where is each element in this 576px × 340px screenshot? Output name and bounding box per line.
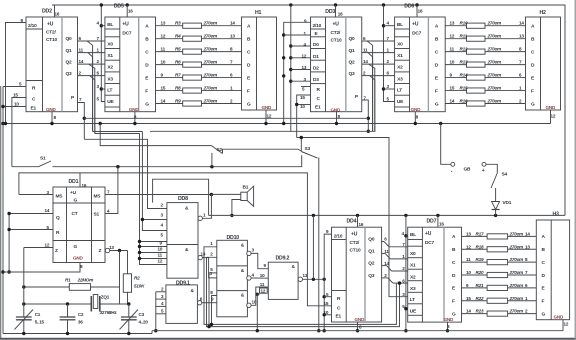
svg-text:R2: R2: [134, 276, 140, 281]
svg-text:UE: UE: [397, 99, 404, 105]
svg-text:D1: D1: [313, 54, 319, 60]
svg-text:DD9.1: DD9.1: [176, 280, 190, 286]
svg-text:Q3: Q3: [349, 71, 356, 77]
svg-text:16: 16: [338, 11, 343, 16]
clock chip DD1: [45, 179, 115, 269]
svg-text:270om: 270om: [509, 270, 524, 275]
wire DD10 outC to DD9.2: [251, 287, 268, 305]
svg-text:5: 5: [302, 87, 305, 92]
svg-text:Q1: Q1: [66, 48, 73, 54]
svg-text:12: 12: [158, 259, 163, 264]
svg-text:2: 2: [402, 266, 405, 271]
svg-text:GND: GND: [46, 107, 56, 112]
svg-text:Z: Z: [55, 248, 58, 254]
wire DD8 out2 to DD10: [202, 258, 216, 278]
svg-text:13: 13: [450, 21, 455, 26]
svg-text:10: 10: [450, 60, 455, 65]
svg-text:4: 4: [252, 272, 255, 277]
svg-text:E1: E1: [315, 105, 321, 111]
wire DD2 pin16: [54, 5, 56, 17]
svg-text:UE: UE: [107, 99, 114, 105]
svg-text:DD1: DD1: [69, 179, 79, 185]
svg-text:7: 7: [402, 242, 405, 247]
resistor R23: [462, 313, 488, 315]
svg-text:X0: X0: [397, 41, 403, 47]
svg-text:C: C: [32, 97, 36, 103]
svg-text:6: 6: [363, 36, 366, 41]
DD8 gate1 output bubble: [198, 216, 202, 220]
svg-text:16: 16: [359, 222, 364, 227]
svg-text:8: 8: [210, 290, 213, 295]
svg-text:270om: 270om: [203, 86, 218, 91]
svg-text:GND: GND: [546, 105, 556, 110]
svg-text:GND: GND: [129, 107, 139, 112]
svg-text:270om: 270om: [509, 283, 524, 288]
svg-text:22MOm: 22MOm: [77, 278, 94, 283]
svg-text:9: 9: [450, 73, 453, 78]
svg-text:2: 2: [525, 309, 528, 314]
svg-text:7: 7: [519, 60, 522, 65]
svg-text:2: 2: [79, 71, 82, 76]
wire B1 to rail: [232, 200, 241, 216]
svg-text:C3: C3: [139, 312, 145, 317]
svg-text:DD10: DD10: [227, 235, 240, 241]
svg-text:C: C: [452, 260, 456, 266]
svg-text:15: 15: [300, 95, 305, 100]
svg-text:D: D: [452, 273, 456, 279]
resistor R7: [156, 77, 183, 79]
svg-text:A: A: [247, 24, 251, 30]
svg-text:11: 11: [466, 257, 471, 262]
svg-text:16: 16: [82, 183, 87, 188]
svg-text:R22: R22: [476, 296, 484, 301]
svg-text:B: B: [531, 36, 535, 42]
svg-text:C: C: [531, 49, 535, 55]
svg-text:&: &: [292, 264, 296, 270]
svg-text:R5: R5: [175, 47, 181, 52]
svg-text:C: C: [317, 96, 321, 102]
LED VD1: [495, 188, 497, 202]
svg-text:2: 2: [384, 273, 387, 278]
svg-text:R9: R9: [175, 99, 181, 104]
resistor R5: [156, 51, 183, 53]
svg-text:R12: R12: [460, 47, 468, 52]
svg-text:1: 1: [402, 254, 405, 259]
svg-text:DC7: DC7: [412, 30, 422, 36]
counter DD4: [324, 219, 390, 330]
svg-text:16: 16: [55, 12, 60, 17]
svg-text:10: 10: [14, 102, 19, 107]
counter DD3: [300, 9, 368, 119]
svg-text:GND: GND: [355, 317, 365, 322]
svg-text:X1: X1: [397, 53, 403, 59]
wire bus vertical B: [140, 134, 167, 265]
svg-text:270om: 270om: [509, 296, 524, 301]
wire DD10 B1 feed: [209, 273, 217, 327]
svg-text:GND: GND: [554, 315, 564, 320]
svg-text:14: 14: [45, 208, 50, 213]
resistor R12: [445, 51, 466, 53]
wire DD2 C row to S1: [12, 98, 26, 167]
svg-text:R3: R3: [175, 21, 181, 26]
svg-text:H3: H3: [553, 212, 560, 218]
wire DD4 gnd stub: [357, 322, 359, 331]
svg-text:4: 4: [402, 231, 405, 236]
svg-text:8: 8: [519, 47, 522, 52]
resistor R1 22MOm: [24, 286, 70, 288]
wire H2 gnd stub: [550, 110, 552, 124]
svg-text:8: 8: [525, 257, 528, 262]
svg-text:270om: 270om: [487, 73, 502, 78]
svg-text:DD6: DD6: [404, 4, 414, 10]
resistor R19: [462, 261, 488, 263]
wire H3 gnd to rail: [562, 320, 564, 331]
svg-text:7: 7: [79, 97, 82, 102]
wire +U bottom rail: [153, 179, 209, 215]
svg-text:7: 7: [97, 36, 100, 41]
svg-text:R: R: [317, 87, 321, 93]
resistor R10: [445, 25, 466, 27]
svg-text:5: 5: [387, 96, 390, 101]
wire DD1 pin3: [19, 194, 53, 196]
resistor R18: [462, 248, 488, 250]
svg-text:Q1: Q1: [368, 249, 375, 255]
svg-text:2: 2: [161, 203, 164, 208]
wire DD4 pin9/R vertical: [324, 234, 331, 331]
svg-text:270om: 270om: [509, 257, 524, 262]
svg-text:2: 2: [230, 99, 233, 104]
svg-text:32768Hz: 32768Hz: [100, 310, 118, 315]
svg-text:DD4: DD4: [347, 219, 357, 225]
svg-text:11: 11: [363, 48, 368, 53]
wire DD9.1 input ladder: [155, 292, 157, 331]
wire DD10 outB to DD9.2: [251, 277, 268, 279]
svg-text:1: 1: [525, 296, 528, 301]
svg-text:4..20: 4..20: [139, 320, 149, 325]
svg-text:36: 36: [78, 320, 83, 325]
svg-text:B: B: [145, 36, 149, 42]
resistor R17: [462, 235, 488, 237]
wire bottom gnd rail: [3, 333, 152, 335]
svg-text:6: 6: [230, 73, 233, 78]
svg-text:8: 8: [54, 115, 57, 120]
svg-text:B: B: [247, 36, 251, 42]
svg-text:9: 9: [264, 263, 267, 268]
svg-text:2: 2: [97, 59, 100, 64]
svg-text:F: F: [435, 88, 438, 94]
svg-text:&: &: [185, 247, 189, 253]
wire DD6 gnd stub: [414, 112, 416, 124]
svg-text:15: 15: [161, 86, 166, 91]
svg-text:3: 3: [402, 292, 405, 297]
wire DD5 gnd stub: [134, 112, 136, 124]
capacitor C2 36: [67, 304, 69, 317]
svg-text:BL: BL: [397, 22, 403, 28]
svg-text:R: R: [32, 86, 36, 92]
svg-text:7: 7: [107, 190, 110, 195]
DD9.2 pin12 stub box: [260, 288, 268, 293]
svg-text:270om: 270om: [203, 99, 218, 104]
svg-text:2/10: 2/10: [334, 233, 343, 239]
wire DD7 BL/UE feed: [405, 215, 407, 330]
svg-text:10: 10: [466, 270, 471, 275]
svg-text:E: E: [531, 75, 535, 81]
svg-text:6: 6: [97, 70, 100, 75]
svg-text:CT: CT: [72, 211, 78, 217]
wire DD1 pin13 node: [110, 250, 128, 252]
svg-text:7: 7: [525, 270, 528, 275]
svg-text:Q2: Q2: [368, 261, 375, 267]
svg-text:4: 4: [161, 301, 164, 306]
svg-text:D2: D2: [313, 66, 319, 72]
svg-text:G: G: [247, 101, 251, 107]
wire DD2 R row: [3, 86, 26, 88]
svg-text:R6: R6: [175, 60, 181, 65]
resistor R6: [156, 64, 183, 66]
svg-text:C: C: [247, 49, 251, 55]
svg-text:13: 13: [230, 34, 235, 39]
svg-text:CT2/: CT2/: [331, 30, 341, 36]
svg-text:GND: GND: [411, 107, 421, 112]
svg-text:C1: C1: [35, 312, 41, 317]
wire pin13 vertical: [119, 251, 121, 305]
svg-text:H1: H1: [255, 10, 262, 16]
svg-text:1: 1: [97, 47, 100, 52]
svg-text:270om: 270om: [487, 60, 502, 65]
svg-text:&: &: [241, 243, 245, 249]
svg-text:3: 3: [252, 248, 255, 253]
svg-text:R18: R18: [476, 244, 484, 249]
svg-text:11: 11: [79, 48, 84, 53]
capacitor C1 5..15: [16, 316, 32, 318]
svg-text:DD5: DD5: [114, 4, 124, 10]
svg-text:3: 3: [161, 294, 164, 299]
svg-text:-: -: [451, 169, 453, 175]
svg-text:270om: 270om: [203, 60, 218, 65]
svg-text:BL: BL: [410, 232, 416, 238]
svg-text:GB: GB: [464, 167, 472, 173]
gate DD9.1: [161, 280, 203, 323]
svg-text:G: G: [542, 311, 546, 317]
wire DD3 gnd stub: [336, 112, 338, 124]
svg-text:14: 14: [525, 231, 530, 236]
wire band line B: [297, 138, 408, 297]
svg-text:X1: X1: [107, 53, 113, 59]
svg-text:R1: R1: [65, 278, 71, 283]
svg-text:CT10: CT10: [331, 37, 342, 43]
svg-text:270om: 270om: [487, 86, 502, 91]
svg-text:270om: 270om: [509, 244, 524, 249]
wire DD2 pin9 to gnd: [6, 23, 27, 124]
svg-text:8: 8: [230, 47, 233, 52]
resistor R14: [445, 77, 466, 79]
svg-text:R23: R23: [476, 309, 484, 314]
wire band P-line: [84, 117, 368, 119]
svg-text:15: 15: [13, 93, 18, 98]
svg-text:F: F: [452, 299, 455, 305]
wire DD3 E enable vertical: [290, 5, 292, 131]
svg-text:15: 15: [450, 86, 455, 91]
svg-text:LT: LT: [107, 87, 112, 93]
wire DD1 gnd: [3, 263, 80, 273]
display H2: [526, 10, 561, 118]
resistor R3: [156, 25, 183, 27]
svg-text:C2: C2: [78, 312, 84, 317]
svg-text:Q0: Q0: [66, 36, 73, 42]
svg-text:Q2: Q2: [66, 59, 73, 65]
svg-text:X3: X3: [397, 76, 403, 82]
wire band line A: [150, 130, 375, 132]
svg-text:E1: E1: [336, 314, 342, 320]
resistor R4: [156, 38, 183, 40]
switch S1: [12, 166, 39, 168]
svg-text:X0: X0: [107, 41, 113, 47]
svg-text:13: 13: [303, 273, 308, 278]
svg-text:D: D: [542, 273, 546, 279]
wire +U top rail: [52, 5, 565, 215]
wire DD9.1 out to DD10: [202, 302, 217, 304]
svg-text:13: 13: [161, 21, 166, 26]
svg-text:E: E: [315, 31, 319, 37]
svg-text:C: C: [435, 49, 439, 55]
wire DD7 pin16: [437, 215, 439, 227]
DD9.2 output bubble: [298, 277, 302, 281]
svg-text:D3: D3: [313, 77, 319, 83]
svg-text:S1: S1: [40, 156, 46, 162]
scan border: [0, 86, 2, 339]
wire DD10 outA to DD9.2: [251, 253, 268, 268]
svg-text:11: 11: [260, 282, 265, 287]
crystal ZQ1 32768Hz: [24, 303, 92, 305]
svg-text:Q0: Q0: [368, 237, 375, 243]
svg-text:16: 16: [128, 9, 133, 14]
svg-text:GND: GND: [331, 107, 341, 112]
display H1: [242, 10, 277, 118]
svg-text:G: G: [74, 198, 78, 204]
svg-text:E: E: [542, 286, 546, 292]
wire DD5 pin16: [126, 5, 128, 17]
svg-text:DD3: DD3: [325, 9, 335, 15]
svg-text:DD2: DD2: [42, 9, 52, 15]
wire DD6 BL/LT/UE feed: [384, 5, 395, 102]
speaker B1: [241, 185, 254, 207]
svg-text:R8: R8: [175, 86, 181, 91]
svg-text:270om: 270om: [487, 34, 502, 39]
svg-text:7: 7: [387, 36, 390, 41]
svg-text:GND: GND: [73, 256, 83, 261]
svg-text:X3: X3: [410, 286, 416, 292]
svg-text:R7: R7: [175, 73, 181, 78]
svg-text:DD8: DD8: [178, 196, 188, 202]
counter DD2: [13, 9, 84, 121]
svg-text:1: 1: [203, 213, 206, 218]
svg-text:2: 2: [210, 252, 213, 257]
capacitor C3 4..20: [128, 304, 130, 317]
svg-text:2: 2: [363, 71, 366, 76]
svg-text:E: E: [452, 286, 456, 292]
wire Q rows DD3-DD6: [362, 40, 395, 42]
svg-text:270om: 270om: [203, 21, 218, 26]
svg-text:R13: R13: [460, 60, 468, 65]
switch S3: [300, 138, 302, 152]
svg-text:GND: GND: [262, 105, 272, 110]
decoder DD6: [387, 4, 446, 120]
svg-text:5: 5: [161, 233, 164, 238]
svg-text:G: G: [435, 101, 439, 107]
svg-text:12: 12: [450, 34, 455, 39]
svg-text:R15: R15: [460, 86, 468, 91]
resistor R15: [445, 90, 466, 92]
svg-text:5..15: 5..15: [35, 320, 45, 325]
gate DD10: [210, 235, 257, 317]
svg-text:G: G: [145, 101, 149, 107]
svg-text:BL: BL: [107, 22, 113, 28]
resistor R20: [462, 274, 488, 276]
svg-text:&: &: [241, 293, 245, 299]
svg-text:X2: X2: [410, 274, 416, 280]
svg-text:+U: +U: [412, 22, 419, 28]
svg-text:3: 3: [161, 213, 164, 218]
svg-text:S2: S2: [217, 147, 223, 153]
svg-text:MS: MS: [56, 194, 64, 200]
svg-text:R11: R11: [460, 34, 468, 39]
svg-text:R: R: [337, 296, 341, 302]
wire DD4 bus to DD10 line2: [207, 257, 400, 326]
svg-text:F: F: [531, 88, 534, 94]
svg-text:+U: +U: [47, 22, 54, 28]
svg-text:7: 7: [230, 60, 233, 65]
gate DD8: [158, 196, 207, 278]
wire DD4 pin16: [357, 215, 359, 227]
wire DD1 pin5: [9, 229, 53, 231]
svg-text:CT2/: CT2/: [350, 240, 360, 246]
wire GND rail: [3, 123, 551, 125]
svg-text:+U: +U: [122, 22, 129, 28]
svg-text:4: 4: [387, 21, 390, 26]
svg-text:11: 11: [384, 249, 389, 254]
wire DD9.2 out: [303, 278, 325, 280]
svg-text:S1: S1: [94, 212, 100, 218]
battery GB: [441, 124, 451, 165]
svg-text:GND: GND: [444, 317, 454, 322]
wire DD4 bus to DD10 line1: [204, 247, 396, 325]
svg-text:9: 9: [326, 229, 329, 234]
svg-text:B: B: [452, 247, 456, 253]
svg-text:B1: B1: [243, 185, 249, 191]
svg-text:5: 5: [161, 308, 164, 313]
svg-text:270om: 270om: [487, 99, 502, 104]
svg-text:14: 14: [230, 21, 235, 26]
svg-text:2: 2: [519, 99, 522, 104]
decoder DD5: [97, 4, 156, 120]
resistor R8: [156, 90, 183, 92]
svg-text:D: D: [247, 62, 251, 68]
svg-text:E: E: [247, 75, 251, 81]
resistor R13: [445, 64, 466, 66]
svg-text:270om: 270om: [203, 34, 218, 39]
svg-text:6: 6: [402, 278, 405, 283]
svg-text:VD1: VD1: [503, 200, 512, 206]
wire DD3 R row: [301, 86, 311, 88]
svg-text:13: 13: [466, 231, 471, 236]
svg-text:11: 11: [158, 253, 163, 258]
svg-text:2/10: 2/10: [313, 23, 322, 29]
svg-text:F: F: [247, 88, 250, 94]
svg-text:13: 13: [525, 244, 530, 249]
svg-text:270om: 270om: [487, 47, 502, 52]
svg-text:X2: X2: [107, 65, 113, 71]
svg-text:A: A: [145, 24, 149, 30]
